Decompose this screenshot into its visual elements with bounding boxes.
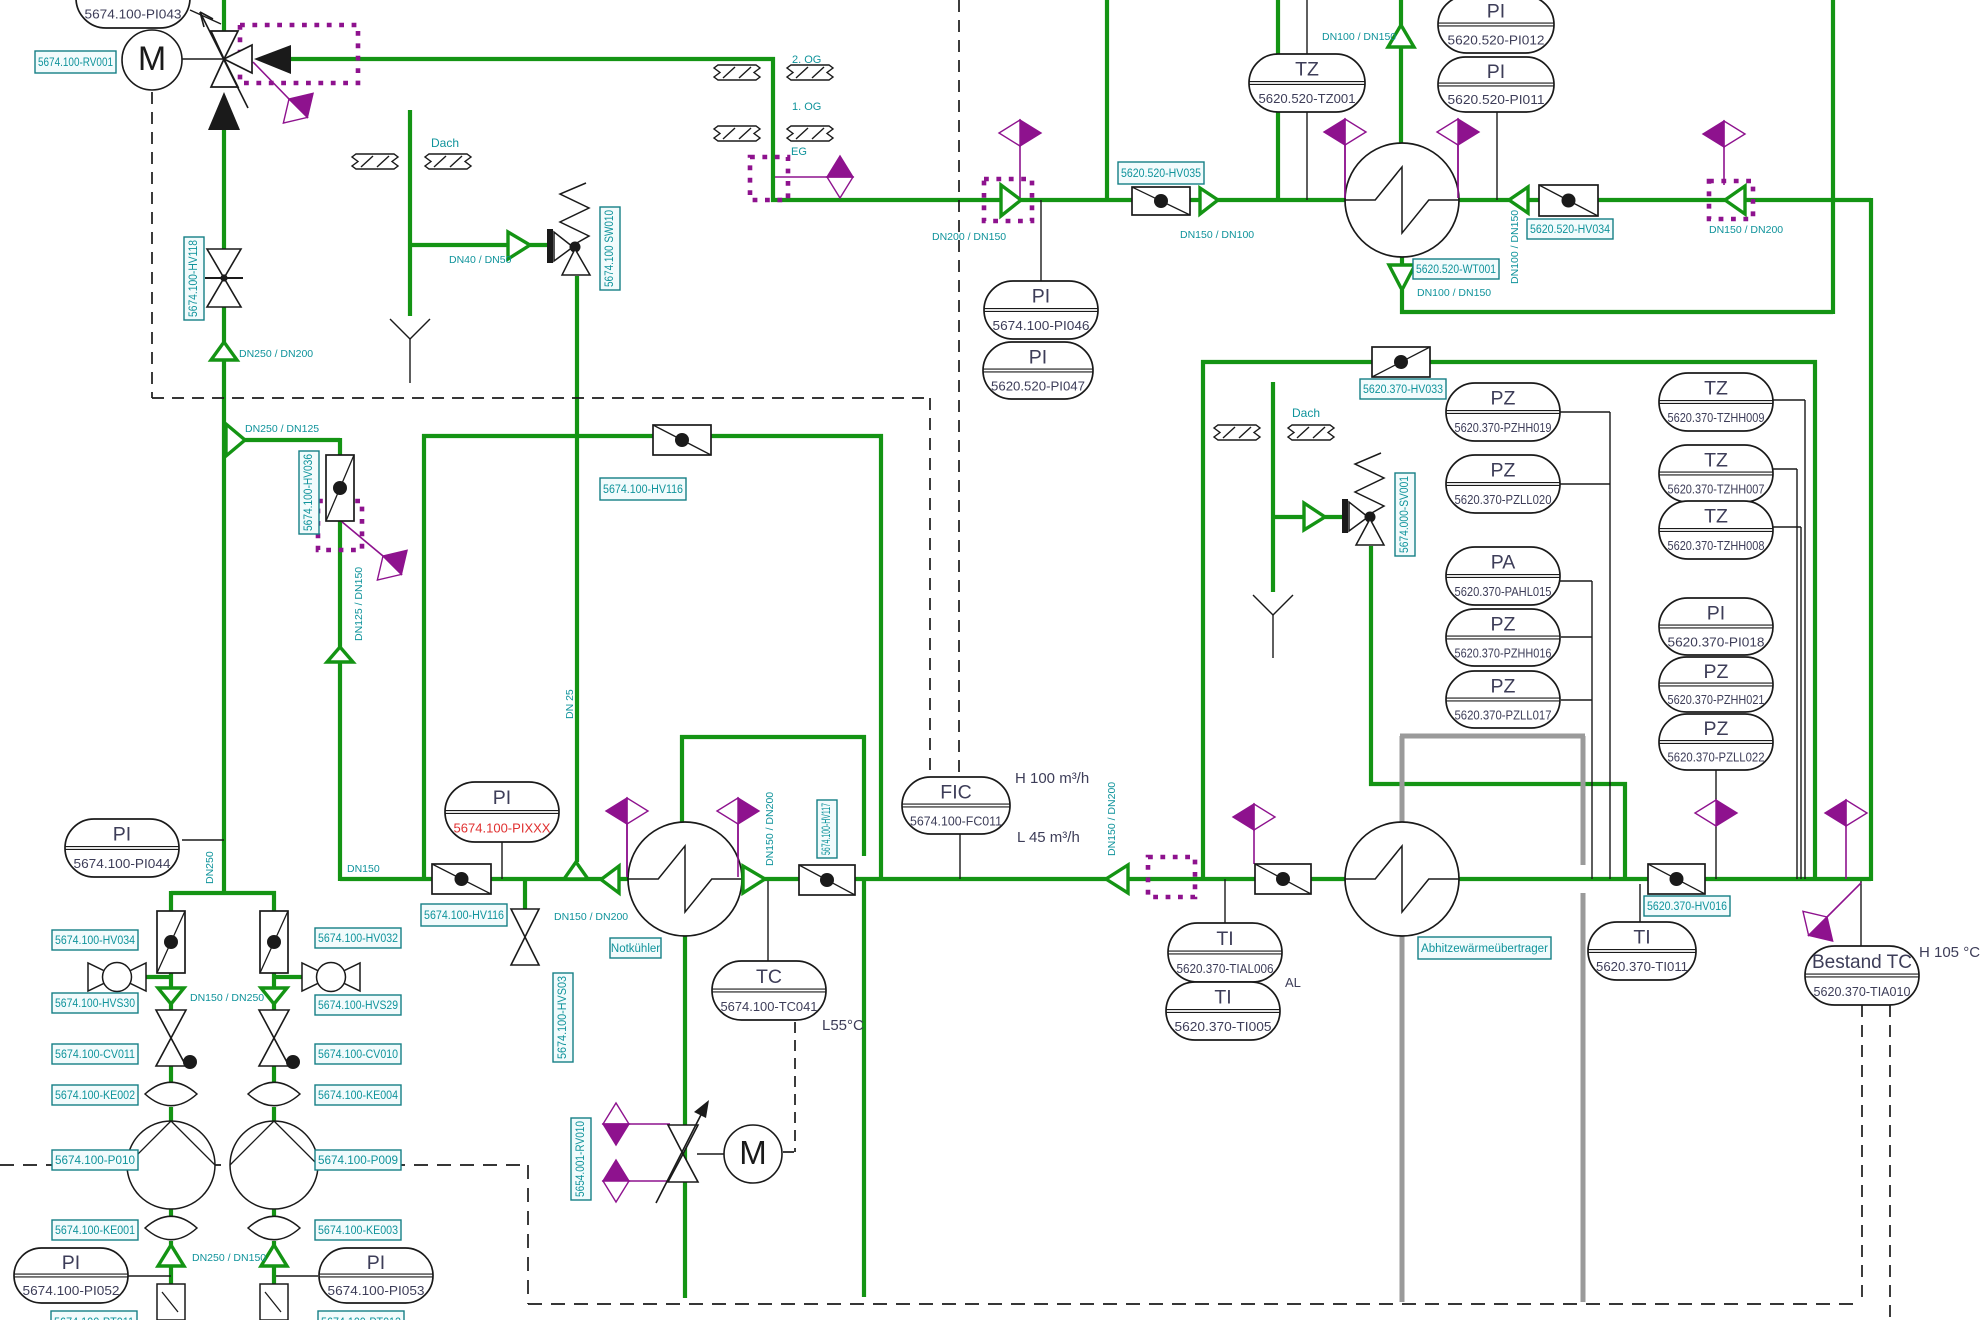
node reducer DN25 tee	[564, 862, 588, 879]
wire branch to SW010	[408, 243, 510, 247]
wire pump manifold horizontal	[171, 891, 276, 895]
wire PI043 tap	[190, 10, 221, 24]
svg-text:EG: EG	[791, 146, 807, 158]
instrument PI018	[1659, 598, 1773, 655]
svg-text:TI: TI	[1214, 987, 1231, 1009]
valve SW010 safety	[547, 229, 553, 263]
label HV117	[817, 800, 837, 858]
instrument PIXXX	[445, 782, 559, 842]
svg-text:5620.370-HV033: 5620.370-HV033	[1363, 384, 1443, 396]
svg-text:TZ: TZ	[1295, 59, 1319, 81]
equipment Abhitzewaermeuebertrager heat exchanger	[1345, 822, 1459, 936]
valve CV011 control	[156, 1010, 186, 1038]
node check valve after Notkuehler	[743, 866, 765, 893]
svg-text:DN40 / DN50: DN40 / DN50	[449, 254, 512, 266]
wire CV011 to KE002	[169, 1066, 173, 1083]
node flow arrow up	[208, 92, 240, 130]
valve RV010 body	[668, 1125, 698, 1154]
svg-text:M: M	[138, 40, 166, 78]
instrument TI005	[1166, 982, 1280, 1040]
wire EG flag line	[775, 176, 827, 178]
svg-text:5620.520-TZ001: 5620.520-TZ001	[1259, 91, 1356, 106]
svg-text:5620.370-PZHH021: 5620.370-PZHH021	[1668, 692, 1765, 707]
svg-text:DN250: DN250	[204, 851, 216, 884]
node CV010 dot	[286, 1055, 300, 1069]
svg-text:TZ: TZ	[1704, 449, 1728, 471]
wire RV001 motor link	[182, 58, 224, 60]
wire gray exhaust top	[1400, 734, 1585, 739]
instrument TIA010 Bestand TC	[1805, 946, 1919, 1005]
wire KE002 to P010	[169, 1107, 173, 1123]
node Notkuehler right flag	[717, 798, 759, 824]
node check valve after HV035	[1200, 188, 1218, 214]
valve pump B isolation HV032	[260, 911, 288, 973]
svg-text:Dach: Dach	[1292, 406, 1320, 420]
node dotted box on lower main pipe	[1148, 857, 1195, 897]
label pump HV034	[52, 930, 138, 950]
svg-text:DN250 / DN150: DN250 / DN150	[192, 1252, 266, 1264]
instrument TI011	[1588, 922, 1696, 980]
wire bypass drop x881 after Notkuehler	[879, 434, 883, 879]
wire reducer to WT001 top	[1399, 47, 1403, 145]
node reducer DN125/DN150	[327, 647, 353, 662]
node wall Dach right b	[1288, 425, 1334, 440]
svg-text:PZ: PZ	[1491, 460, 1516, 482]
svg-text:DN150 / DN250: DN150 / DN250	[190, 992, 264, 1004]
svg-text:5674.100-PI044: 5674.100-PI044	[74, 856, 171, 871]
node reducer DN150/DN200 lower	[1106, 865, 1128, 893]
svg-text:PI: PI	[367, 1252, 385, 1274]
node reducer DN100/DN150 top	[1388, 25, 1414, 47]
node PZLL022 flag	[1695, 800, 1737, 826]
svg-text:PA: PA	[1491, 552, 1516, 574]
svg-text:DN150: DN150	[347, 863, 380, 875]
wire Notkuehler top feed	[680, 735, 684, 824]
node reducer DN100/DN150 bottom	[1389, 265, 1415, 290]
svg-text:5674.100-HVS03: 5674.100-HVS03	[557, 976, 569, 1059]
valve HV116 main	[432, 864, 491, 894]
equipment Notkuehler heat exchanger	[628, 822, 742, 936]
svg-text:DN 25: DN 25	[564, 689, 576, 719]
wire gray exhaust left lower	[1400, 934, 1405, 1302]
label P009	[315, 1150, 401, 1170]
svg-text:5620.370-TIAL006: 5620.370-TIAL006	[1177, 961, 1274, 976]
wire riser RV001 to HV118	[222, 130, 226, 249]
wire dashed boundary x528	[527, 1165, 529, 1304]
svg-text:5620.370-TIA010: 5620.370-TIA010	[1814, 984, 1911, 999]
wire signal bundle x1592	[1591, 581, 1593, 879]
label SV001	[1395, 473, 1415, 556]
instrument TZHH007	[1659, 445, 1773, 502]
instrument PZHH021	[1659, 657, 1773, 712]
svg-text:FIC: FIC	[940, 781, 971, 803]
wire pump B top stub	[272, 891, 276, 913]
wire dashed boundary left vertical	[151, 92, 153, 398]
node KE003 compensator	[248, 1216, 300, 1239]
wire branch DN125 horizontal	[245, 438, 340, 442]
label WT001	[1413, 259, 1499, 279]
svg-text:PZ: PZ	[1704, 661, 1729, 683]
instrument PZLL022	[1659, 714, 1773, 770]
node Bestand TC flag	[1794, 902, 1842, 950]
label RV001	[35, 51, 116, 73]
wire SV001 outlet down	[1369, 546, 1373, 786]
svg-text:1. OG: 1. OG	[792, 101, 821, 113]
svg-text:Abhitzewärmeübertrager: Abhitzewärmeübertrager	[1421, 943, 1548, 955]
valve SV001 safety	[1342, 499, 1348, 533]
valve HV015 abhitze	[1255, 864, 1311, 894]
valve HV118 gate	[207, 249, 241, 278]
svg-text:DN250 / DN200: DN250 / DN200	[239, 348, 313, 360]
node reducer pump B top	[261, 988, 287, 1004]
instrument TZHH009	[1659, 373, 1773, 431]
wire pump A top stub	[169, 891, 173, 913]
svg-text:5674.100-PI053: 5674.100-PI053	[328, 1283, 425, 1298]
wire TZ001 tap	[1306, 110, 1308, 200]
valve HVS29 ball	[302, 963, 331, 991]
svg-text:AL: AL	[1285, 975, 1301, 990]
wire DN25 line from SW010 down	[575, 276, 579, 862]
wire bypass riser x1203	[1201, 360, 1205, 881]
wire SV001 outlet drop to main pipe	[1623, 782, 1627, 881]
svg-text:L 45 m³/h: L 45 m³/h	[1017, 829, 1080, 846]
svg-text:5674.100-HV118: 5674.100-HV118	[188, 240, 200, 317]
wire dashed signal Bestand TC right	[1889, 1005, 1891, 1320]
wire dashed boundary y1165	[0, 1164, 528, 1166]
wire PIXXX tap	[501, 842, 503, 879]
svg-text:PI: PI	[113, 824, 131, 846]
svg-text:5674.100-HV036: 5674.100-HV036	[303, 454, 315, 531]
svg-text:5674.100 SW010: 5674.100 SW010	[604, 210, 616, 287]
instrument TZHH008	[1659, 501, 1773, 559]
svg-text:TZ: TZ	[1704, 506, 1728, 528]
wire flag line x1846	[1845, 826, 1847, 879]
svg-text:DN150 / DN200: DN150 / DN200	[1709, 224, 1783, 236]
instrument PI053	[319, 1248, 433, 1303]
svg-text:5674.100-P010: 5674.100-P010	[55, 1155, 135, 1167]
svg-text:Notkühler: Notkühler	[611, 943, 660, 955]
wire HV036 to reducer	[338, 521, 342, 647]
svg-text:5620.370-TZHH008: 5620.370-TZHH008	[1668, 538, 1765, 553]
node KE002 compensator	[145, 1082, 197, 1105]
equipment P010 pump	[127, 1121, 215, 1209]
svg-text:5620.370-TI005: 5620.370-TI005	[1175, 1019, 1272, 1034]
wire PZLL017 link	[1561, 699, 1592, 701]
wire bypass horizontal after HV033	[1430, 360, 1817, 364]
svg-text:5674.000-SV001: 5674.000-SV001	[1399, 476, 1411, 553]
wire HV118 to reducer	[222, 307, 226, 342]
svg-text:5674.100-HV034: 5674.100-HV034	[55, 935, 136, 947]
wire WT001 reducer to elbow	[1400, 290, 1404, 314]
wire top header horizontal	[291, 57, 775, 61]
wire signal bundle x1797	[1796, 469, 1798, 879]
node check valve before HV034	[1509, 187, 1528, 213]
wire bypass drop x1815	[1813, 360, 1817, 881]
node wall 2OG right	[787, 65, 833, 80]
svg-text:PI: PI	[1707, 602, 1725, 624]
wire roof vent line x410	[408, 110, 412, 316]
svg-text:5620.370-TI011: 5620.370-TI011	[1596, 959, 1688, 974]
label HV036	[299, 451, 319, 534]
svg-text:5674.100-HV117: 5674.100-HV117	[821, 803, 833, 855]
wire Bestand TC tap	[1860, 881, 1862, 948]
node RV001 motor M	[122, 30, 182, 90]
wire KE001 to reducer	[169, 1241, 173, 1246]
wire PZLL022 tap line	[1715, 770, 1717, 879]
wire pump B ball valve stub	[274, 975, 304, 979]
svg-text:Dach: Dach	[431, 136, 459, 150]
svg-text:DN150 / DN200: DN150 / DN200	[764, 792, 776, 866]
svg-text:H 100 m³/h: H 100 m³/h	[1015, 770, 1089, 787]
label HV118	[184, 237, 204, 320]
svg-text:5620.520-HV035: 5620.520-HV035	[1121, 168, 1201, 180]
instrument PZHH016	[1446, 609, 1560, 666]
wire HVS03 stub	[523, 879, 527, 909]
wire dashed signal x959 to FIC	[958, 0, 960, 779]
wire check to SV001 seat	[1325, 515, 1343, 519]
wire dashed boundary horizontal y398	[152, 397, 930, 399]
wire PZLL020 link	[1560, 483, 1610, 485]
wire TZHH009 link	[1773, 399, 1805, 401]
svg-text:5674.100-TC041: 5674.100-TC041	[721, 999, 818, 1014]
wire TZ001 signal up	[1306, 0, 1308, 56]
wire WT001 left flag line	[1344, 145, 1346, 199]
wire right riser x1871	[1869, 198, 1873, 881]
svg-text:5674.100-HV116: 5674.100-HV116	[424, 910, 504, 922]
wire reducer down to bottom main pipe	[338, 660, 342, 881]
wire top header drop at x773	[771, 57, 775, 202]
wire PI011 tap	[1496, 112, 1498, 200]
node signal flag x1020	[999, 120, 1041, 146]
valve HV036	[326, 455, 354, 521]
node RV010 upper flag	[603, 1103, 629, 1145]
wire dashed signal x930 to FIC	[929, 398, 931, 779]
svg-text:H 105 °C: H 105 °C	[1919, 944, 1980, 961]
node signal flag x1846	[1825, 800, 1867, 826]
instrument PI046	[984, 281, 1098, 339]
svg-text:5620.520-PI011: 5620.520-PI011	[1448, 92, 1545, 107]
wire PI052 tap	[128, 1275, 171, 1277]
wire pump B valve to reducer	[272, 971, 276, 988]
label CV011	[52, 1044, 138, 1064]
wire WT001 bottom stub	[1400, 255, 1404, 265]
svg-text:5620.370-TZHH009: 5620.370-TZHH009	[1668, 410, 1765, 425]
wire TIAL006 tap	[1224, 879, 1226, 925]
wire vertical x1833 to top edge	[1831, 0, 1835, 314]
label HV033	[1360, 379, 1446, 399]
wire PI044 tap	[182, 839, 224, 841]
label RV010	[571, 1118, 591, 1200]
wire signal bundle x1801	[1800, 527, 1802, 879]
node reducer DN250/DN200	[211, 342, 237, 360]
svg-text:5674.100-HVS29: 5674.100-HVS29	[318, 1000, 398, 1012]
node RV010 lower flag	[603, 1160, 629, 1202]
wire WT001 return horizontal y312	[1400, 310, 1833, 314]
svg-text:5674.100-KE003: 5674.100-KE003	[318, 1225, 398, 1237]
label HV035	[1118, 162, 1204, 184]
svg-text:PI: PI	[1487, 0, 1505, 22]
wire pump A ball valve stub	[146, 975, 171, 979]
svg-text:5674.100-HVS30: 5674.100-HVS30	[55, 998, 135, 1010]
label HVS30	[52, 993, 138, 1013]
node wall Dach right a	[1214, 425, 1260, 440]
label HV034	[1527, 219, 1613, 239]
wire SV001 outlet horizontal y784	[1369, 782, 1627, 786]
node RV001 dotted interlock box	[240, 25, 358, 83]
valve HVS03 drain	[511, 909, 539, 937]
svg-text:DN150 / DN200: DN150 / DN200	[1106, 782, 1118, 856]
wire RV010 upper flag line	[629, 1123, 670, 1125]
node wall 2OG left	[714, 65, 760, 80]
wire Notkuehler drain down	[683, 934, 687, 1298]
instrument PZLL017	[1446, 671, 1560, 728]
wire P009 to KE003	[272, 1207, 276, 1217]
wire main riser above RV001	[222, 0, 226, 31]
svg-text:DN100 / DN150: DN100 / DN150	[1417, 287, 1491, 299]
svg-text:PZ: PZ	[1491, 613, 1516, 635]
label HV016	[1644, 896, 1730, 916]
svg-text:M: M	[739, 1134, 767, 1171]
wire RV001 flag line	[253, 62, 289, 99]
svg-text:L55°C: L55°C	[822, 1017, 864, 1034]
svg-text:5674.100-PI043: 5674.100-PI043	[85, 7, 182, 22]
instrument PI043	[76, 0, 190, 28]
equipment P009 pump	[230, 1121, 318, 1209]
wire main riser DN250 down to pump manifold	[222, 360, 226, 893]
svg-text:DN250 / DN125: DN250 / DN125	[245, 423, 319, 435]
wire loop drop stub x864	[862, 735, 866, 856]
wire WT001 right flag line	[1457, 145, 1459, 199]
wire dashed boundary y1304	[528, 1303, 1862, 1305]
svg-text:Bestand TC: Bestand TC	[1812, 951, 1912, 973]
label Abhitzewaermeuebertrager	[1418, 937, 1551, 959]
wire reducer to PT012	[272, 1266, 276, 1284]
svg-text:DN150 / DN200: DN150 / DN200	[554, 911, 628, 923]
node reducer pump B bottom	[261, 1245, 287, 1266]
node WT001 left flag	[1324, 119, 1366, 145]
wire Notkuehler right flag line overlay	[737, 824, 739, 877]
label KE001	[52, 1220, 138, 1240]
instrument PI052	[14, 1248, 128, 1303]
node RV001 relief arrow	[200, 12, 248, 108]
label KE002	[52, 1085, 138, 1105]
node wall Dach left b	[425, 154, 471, 169]
svg-text:DN100 / DN150: DN100 / DN150	[1322, 31, 1396, 43]
wire PZHH019 link	[1560, 411, 1610, 413]
label P010	[52, 1150, 138, 1170]
svg-text:5674.100-PIXXX: 5674.100-PIXXX	[454, 821, 551, 836]
svg-text:5620.370-HV016: 5620.370-HV016	[1647, 901, 1727, 913]
svg-text:TZ: TZ	[1704, 378, 1728, 400]
node wall Dach left a	[352, 154, 398, 169]
node reducer pump A top	[158, 988, 184, 1004]
node flow arrow left	[254, 45, 291, 74]
valve HV033	[1372, 347, 1430, 377]
valve HV116 bypass	[653, 425, 711, 455]
valve HV117	[799, 865, 855, 895]
svg-text:5620.370-TZHH007: 5620.370-TZHH007	[1668, 481, 1765, 496]
node check valve to SW010	[508, 232, 530, 259]
label KE004	[315, 1085, 401, 1105]
svg-text:5620.520-HV034: 5620.520-HV034	[1530, 224, 1611, 236]
svg-text:5654.001-RV010: 5654.001-RV010	[575, 1121, 587, 1197]
label PT011	[51, 1311, 137, 1320]
node PT011 strainer	[157, 1284, 185, 1320]
instrument TZ001	[1249, 54, 1365, 112]
wire signal bundle x1805	[1804, 400, 1806, 879]
wire pump A valve to reducer	[169, 971, 173, 988]
wire KE003 to reducer	[272, 1241, 276, 1246]
node reducer DN150/DN200 right	[1725, 186, 1745, 214]
svg-text:5620.520-WT001: 5620.520-WT001	[1416, 264, 1496, 276]
wire HV036 flag line	[341, 521, 383, 556]
node EG dotted interlock box	[750, 157, 788, 200]
wire RV010 motor link	[697, 1153, 725, 1155]
wire gray exhaust left upper	[1400, 736, 1405, 824]
node RV010 motor M	[724, 1125, 782, 1183]
wire Notkuehler left flag line	[626, 824, 628, 877]
wire RV010 lower flag line	[629, 1180, 670, 1182]
wire bypass horizontal to HV033	[1201, 360, 1372, 364]
valve HVS30 ball	[88, 963, 117, 991]
instrument FC011	[902, 777, 1010, 834]
wire dashed TC041 to RV010 horizontal	[783, 1151, 795, 1153]
wire lower main pipe y879	[340, 877, 1871, 881]
wire Notkuehler left flag line overlay	[626, 824, 628, 877]
instrument TC041	[712, 961, 826, 1020]
node EG signal flag	[827, 156, 853, 198]
svg-text:PI: PI	[1487, 61, 1505, 83]
wire TZHH008 link	[1773, 526, 1801, 528]
valve RV001 3-way body	[211, 31, 238, 59]
svg-text:5620.370-PAHL015: 5620.370-PAHL015	[1455, 584, 1552, 599]
node Notkuehler left flag	[606, 798, 648, 824]
node HV valve flag x1254	[1233, 804, 1275, 830]
node reducer dotted box x1731	[1709, 181, 1753, 219]
label PT012	[318, 1311, 404, 1320]
svg-text:5674.100-RV001: 5674.100-RV001	[38, 57, 113, 69]
node check valve x1008	[1001, 185, 1021, 216]
node reducer DN250/DN125	[226, 424, 245, 456]
node KE001 compensator	[145, 1216, 197, 1239]
valve HV035	[1132, 187, 1190, 215]
node HV036 dotted interlock box	[318, 501, 362, 550]
instrument TIAL006	[1168, 923, 1282, 982]
node vent funnel right	[1253, 595, 1273, 615]
svg-text:5620.520-PI047: 5620.520-PI047	[991, 378, 1085, 393]
svg-text:5674.100-FC011: 5674.100-FC011	[910, 813, 1002, 828]
wire PAHL015 link	[1560, 580, 1592, 582]
label SW010	[600, 207, 620, 290]
label HVS29	[315, 995, 401, 1015]
label HV116 bypass	[600, 478, 686, 500]
svg-text:5674.100-CV011: 5674.100-CV011	[55, 1049, 135, 1061]
wire vertical from top x1107	[1105, 0, 1109, 200]
valve HV034 district	[1539, 185, 1598, 216]
node wall 1OG left	[714, 126, 760, 141]
svg-text:TI: TI	[1216, 928, 1233, 950]
svg-text:5620.370-PZHH019: 5620.370-PZHH019	[1455, 420, 1552, 435]
svg-text:5620.370-PZLL022: 5620.370-PZLL022	[1668, 750, 1765, 765]
wire KE004 to P009	[272, 1107, 276, 1123]
label Notkuehler	[610, 938, 661, 958]
svg-text:2. OG: 2. OG	[792, 54, 821, 66]
wire WT001 left flag line overlay	[1344, 145, 1346, 198]
wire Notkuehler right flag line	[737, 824, 739, 866]
label HVS03	[553, 973, 573, 1062]
wire branch to SV001	[1271, 515, 1305, 519]
label pump HV032	[315, 928, 401, 948]
